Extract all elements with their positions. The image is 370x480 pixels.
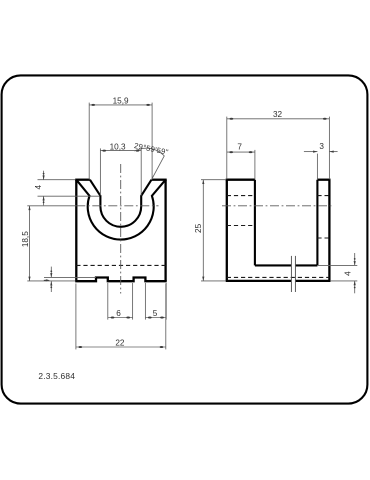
- svg-text:22: 22: [115, 338, 125, 347]
- svg-text:2.3.5.684: 2.3.5.684: [38, 371, 75, 381]
- svg-text:25: 25: [194, 223, 203, 233]
- svg-text:3: 3: [319, 142, 324, 151]
- hidden line outer arc bottom, right wall: [317, 237, 329, 239]
- break line 2: [294, 256, 296, 292]
- groove outer silhouette: corner slants and outer arc: [76, 180, 165, 240]
- part top edge right segment: [152, 179, 167, 181]
- hidden line: channel floor seen in front view: [76, 264, 165, 266]
- hidden line chamfer depth, right wall: [317, 195, 329, 197]
- vertical centerline of front view: [120, 164, 122, 294]
- drawing sheet frame: [2, 75, 368, 403]
- dimension 6: [108, 283, 133, 320]
- part left edge: [75, 180, 77, 282]
- groove inner profile: chamfers, walls, semicircle: [90, 180, 152, 227]
- hidden line notch depth across bottom: [227, 276, 330, 278]
- svg-text:18,5: 18,5: [21, 231, 30, 247]
- horizontal centerline of side view: [222, 205, 334, 207]
- dimension 7: [227, 150, 255, 179]
- dimension 18,5: [27, 206, 76, 281]
- right wall inner edge: [316, 180, 318, 266]
- break line 1: [290, 256, 292, 292]
- horizontal centerline of groove circle: [76, 205, 158, 207]
- dimension 5: [145, 283, 166, 320]
- svg-text:4: 4: [34, 184, 43, 189]
- svg-text:7: 7: [237, 143, 242, 152]
- hidden line inner arc bottom, left wall: [227, 225, 256, 227]
- right wall top: [317, 179, 330, 181]
- dimension 10,3: [100, 148, 141, 195]
- angle dimension 29°59'59'': [134, 148, 164, 179]
- left wall outer edge: [226, 180, 228, 281]
- svg-text:10,3: 10,3: [110, 143, 126, 152]
- left wall top: [226, 179, 255, 181]
- left wall inner edge: [254, 180, 256, 266]
- hidden line chamfer depth, left wall: [227, 195, 256, 197]
- dimension 25: [201, 180, 226, 281]
- svg-text:29°59'59": 29°59'59": [133, 141, 169, 157]
- channel floor (broken by break lines): [255, 264, 291, 266]
- part top edge left segment: [75, 179, 90, 181]
- svg-text:4: 4: [343, 271, 352, 276]
- dimension 15,9: [89, 103, 152, 180]
- part right edge: [164, 180, 166, 282]
- svg-text:5: 5: [153, 309, 158, 318]
- right wall outer edge: [328, 180, 330, 281]
- bottom edge with two notches: [75, 278, 167, 282]
- dimension 32: [227, 117, 330, 180]
- tiny leader arrow for notch dim: [44, 279, 48, 281]
- svg-text:15,9: 15,9: [113, 96, 129, 105]
- dimension 22: [76, 284, 166, 350]
- dimension 1 (notch depth): [44, 267, 96, 292]
- dimension 4 (left, chamfer depth): [38, 171, 100, 206]
- dimension 4 (right, floor thickness): [318, 253, 357, 293]
- dimension 3: [304, 152, 338, 180]
- svg-text:6: 6: [116, 309, 121, 318]
- bottom edge (broken by break lines): [226, 280, 292, 282]
- svg-text:32: 32: [273, 110, 283, 119]
